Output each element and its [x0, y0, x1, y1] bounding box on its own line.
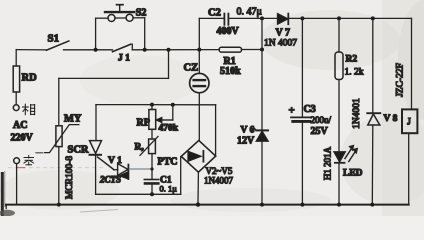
label PTC [158, 157, 178, 168]
wire: neutral terminal to bottom bus [16, 164, 18, 205]
wire: RP to Rt [151, 129, 153, 139]
junction dots DC+ rail [150, 103, 175, 107]
svg-text:S1: S1 [48, 33, 60, 45]
socket CZ [190, 73, 209, 92]
label V7 1N4007 [264, 28, 297, 49]
wire: bridge bottom to bus [197, 172, 199, 204]
label MCR100-8 (vertical) [65, 156, 75, 200]
thermistor Rt PTC [140, 136, 158, 155]
trigger diode V1 2CTS [118, 164, 129, 179]
svg-text:J 1: J 1 [118, 54, 130, 64]
zener V6 [254, 128, 268, 141]
wire: LED to bus [338, 163, 340, 205]
svg-text:0. 1μ: 0. 1μ [160, 184, 178, 194]
label MY [64, 113, 82, 124]
label 1N4001 (vertical) [352, 98, 362, 129]
varistor MY [45, 125, 79, 153]
label V2~V5 [206, 166, 233, 176]
wire: top DC rail right of V7 [288, 17, 411, 19]
svg-text:400V: 400V [217, 26, 240, 37]
wire: relay J to bus [408, 133, 410, 204]
label R1 510k [220, 56, 241, 77]
wire: main rail J1 to R1 [96, 49, 220, 51]
wire: bridge left (DC-) drop to common [180, 157, 182, 195]
svg-text:V2~V5: V2~V5 [206, 166, 233, 176]
wire: SCR gate lead [98, 157, 118, 170]
wire: R1 to V6 column [242, 49, 263, 51]
junction dots top rail [260, 16, 375, 20]
svg-text:1. 2k: 1. 2k [345, 68, 364, 78]
label RD [22, 73, 38, 84]
socket CZ feed riser [198, 50, 200, 74]
svg-text:MY: MY [64, 113, 82, 124]
label 相 (phase) [23, 104, 35, 114]
label R2 1.2k [345, 55, 364, 78]
svg-text:MCR100-8: MCR100-8 [65, 156, 75, 200]
capacitor C3 (electrolytic) [291, 117, 311, 121]
wire: main phase rail left (S1 fixed to S2 loop) [64, 49, 96, 51]
wire: RD to phase terminal [15, 92, 17, 105]
pushbutton S2 [105, 5, 134, 22]
svg-text:2CTS: 2CTS [99, 175, 121, 185]
label JZC-22F (vertical) [396, 63, 406, 97]
wire: Rt to C1 [151, 154, 153, 179]
wire: SCR cathode to common [95, 155, 97, 195]
label V1 [108, 156, 122, 166]
label + C3 200u 25V [289, 104, 332, 137]
scan artifact faint pencil line under bus [80, 210, 118, 213]
svg-text:J: J [407, 116, 411, 126]
svg-text:200u/: 200u/ [311, 115, 332, 125]
scan artifact left edge bar [1, 171, 5, 216]
svg-text:220V: 220V [11, 133, 34, 144]
wire: C3 to bus [301, 123, 303, 205]
junction dots bus [57, 202, 375, 206]
label 2CTS [99, 175, 121, 185]
relay coil J [402, 109, 417, 133]
svg-text:R2: R2 [346, 55, 358, 65]
resistor R1 [219, 47, 241, 52]
svg-text:V 6: V 6 [241, 126, 255, 136]
svg-text:12V: 12V [237, 136, 255, 147]
scan artifact dash near neutral label [36, 152, 43, 154]
terminal phase [13, 105, 19, 111]
wire: C3 column [301, 18, 303, 116]
svg-text:CZ: CZ [184, 63, 199, 74]
svg-text:470k: 470k [159, 124, 179, 134]
potentiometer RP [149, 105, 173, 130]
wire: top DC rail riser from main rail [199, 18, 224, 49]
label 470k [159, 124, 179, 134]
pushbutton S2 loop left riser [96, 18, 108, 50]
wire: top rail right corner down to relay [411, 18, 413, 109]
label Rt [135, 143, 145, 153]
label S1 [48, 33, 60, 45]
svg-text:V 1: V 1 [108, 156, 122, 166]
bottom neutral bus [6, 205, 409, 209]
relay contact J1 [113, 44, 133, 52]
terminal neutral [14, 158, 20, 164]
wire: V8 to bus [371, 125, 374, 205]
wire: C1 to common [151, 185, 153, 195]
label 零 (neutral) [24, 156, 34, 166]
wire: left column down to fuse RD [15, 50, 17, 66]
wire: R2 column top [338, 18, 340, 52]
wire: DC+ rail (bridge + to SCR anode / timing chain) [96, 105, 216, 156]
diode V8 [367, 113, 380, 125]
svg-text:1N4001: 1N4001 [352, 98, 362, 129]
wire: R2 to LED [338, 80, 340, 152]
wire: MY to bus [58, 147, 60, 205]
svg-text:AC: AC [13, 120, 27, 131]
svg-text:510k: 510k [220, 66, 241, 77]
junction dot V1 node [150, 167, 153, 170]
LED H1 [334, 146, 357, 163]
svg-text:JZC-22F: JZC-22F [396, 63, 406, 97]
label J1 [118, 54, 130, 64]
wire: V1 to timing node [129, 168, 152, 170]
wire: V6 column (top rail to zener) [261, 18, 263, 130]
wire: V6 to bus [261, 141, 263, 204]
wire: V8 column top [372, 18, 374, 113]
wire: common rail [96, 193, 181, 195]
label AC 220V [11, 120, 34, 144]
wire: CZ to bridge top (crosses DC+ rail, no junction) [198, 93, 200, 141]
svg-text:C2: C2 [208, 8, 221, 19]
diode V7 [278, 14, 289, 25]
label 1N4007 (bridge) [204, 176, 233, 186]
svg-text:LED: LED [343, 169, 363, 179]
label H1 201A (vertical) [323, 146, 333, 180]
scan artifact bottom-left smudge [0, 210, 15, 216]
svg-text:PTC: PTC [158, 157, 178, 168]
junction dot C1/common [150, 192, 154, 196]
wire: varistor branch riser [59, 50, 169, 126]
svg-text:RP: RP [137, 118, 150, 129]
svg-text:R,: R, [135, 143, 145, 153]
label V6 12V [237, 126, 255, 147]
svg-text:+: + [289, 105, 295, 117]
thyristor SCR [90, 141, 102, 155]
junction dots main rail [94, 48, 202, 52]
svg-text:SCR: SCR [68, 145, 89, 156]
label CZ [184, 63, 199, 74]
label C2 0.47u 400V [208, 7, 262, 38]
svg-text:S2: S2 [136, 7, 147, 18]
wire: C2 to V7 [228, 17, 277, 19]
label J [407, 116, 411, 126]
switch S1 [16, 41, 69, 50]
label RP [137, 118, 150, 129]
svg-text:V 8: V 8 [384, 114, 398, 124]
scan artifact faint dashed fold line [8, 167, 104, 169]
svg-text:C3: C3 [304, 104, 316, 115]
svg-text:H1 201A: H1 201A [323, 146, 333, 180]
label C1 0.1u [160, 176, 178, 194]
svg-text:V 7: V 7 [276, 28, 291, 39]
label S2 [136, 7, 147, 18]
capacitor C1 [144, 180, 158, 184]
resistor R2 [335, 52, 343, 80]
resistor RD [13, 66, 19, 92]
bridge rectifier V2~V5 [181, 140, 216, 172]
capacitor C2 [224, 14, 228, 25]
svg-text:25V: 25V [311, 126, 329, 137]
svg-text:0. 47μ: 0. 47μ [237, 7, 262, 18]
svg-text:1N4007: 1N4007 [204, 176, 233, 186]
label LED [343, 169, 363, 179]
svg-text:RD: RD [22, 73, 38, 84]
label SCR [68, 145, 89, 156]
svg-text:1N 4007: 1N 4007 [264, 39, 297, 49]
pushbutton S2 loop right riser [133, 18, 145, 50]
junction dot R1/V6 node [260, 48, 264, 52]
label V8 [384, 114, 398, 124]
